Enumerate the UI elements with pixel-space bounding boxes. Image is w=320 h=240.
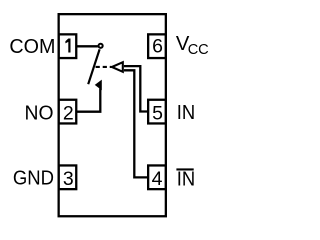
- pin 3 box: [59, 165, 77, 189]
- NO contact arrowhead: [95, 80, 101, 89]
- svg-text:IN: IN: [177, 169, 195, 191]
- pin 4 box: [148, 165, 166, 189]
- wire control arrow to IN-bar pin 4: [124, 70, 147, 177]
- pin 1 box: [59, 34, 77, 58]
- svg-text:3: 3: [63, 168, 74, 190]
- IC package outline: [59, 14, 166, 216]
- pin 2 box: [59, 100, 77, 124]
- overline for IN-bar: [176, 168, 193, 170]
- svg-text:2: 2: [63, 102, 74, 124]
- svg-text:5: 5: [152, 102, 163, 124]
- svg-text:GND: GND: [13, 167, 54, 189]
- wire COM pin1 to pivot: [76, 45, 98, 47]
- dashed actuator line: [96, 66, 112, 68]
- svg-text:NO: NO: [25, 103, 54, 125]
- svg-text:COM: COM: [9, 36, 55, 58]
- svg-text:4: 4: [152, 168, 163, 190]
- pin 1 number: [65, 39, 70, 53]
- svg-text:6: 6: [152, 36, 163, 58]
- switch pivot circle: [99, 44, 103, 48]
- pin 6 box: [148, 34, 166, 58]
- pin 5 box: [148, 100, 166, 124]
- wire control arrow to IN pin 5: [124, 66, 147, 111]
- wire NO contact to pin 2: [76, 89, 100, 112]
- control arrow (hollow triangle): [112, 62, 123, 72]
- svg-text:IN: IN: [177, 102, 195, 124]
- svg-text:CC: CC: [188, 42, 209, 58]
- switch arm (open, COM to NO): [88, 49, 99, 84]
